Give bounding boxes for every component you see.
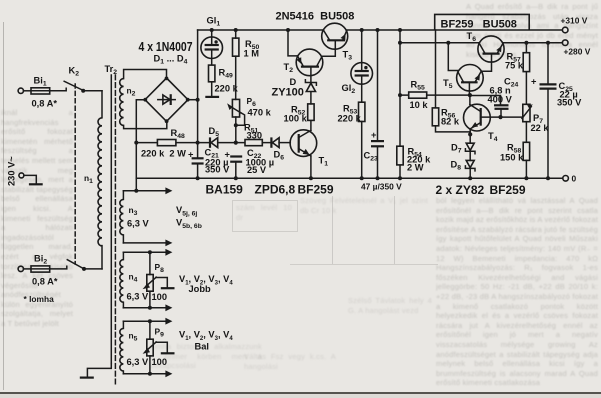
svg-text:BF259: BF259: [298, 183, 334, 197]
capacitor C23: [371, 30, 384, 178]
svg-text:P9: P9: [155, 327, 165, 339]
node B+ / R48 / D5: [196, 141, 200, 145]
node D5/C22/R51/P6: [234, 141, 238, 145]
fuse Bi1: [18, 88, 66, 94]
label C23: [364, 151, 378, 163]
label 400 V: [488, 95, 513, 105]
wire T4 collector: [469, 95, 471, 104]
svg-text:2 x ZY82: 2 x ZY82: [436, 183, 485, 197]
wire R52 to zener: [310, 92, 312, 104]
node +280 rail start: [398, 41, 402, 45]
label D6: [274, 150, 285, 162]
svg-text:1 M: 1 M: [244, 49, 260, 59]
label n4: [129, 272, 138, 284]
wire n2 top to bridge: [124, 70, 167, 79]
transistor T1 BF259: [290, 130, 317, 157]
svg-text:350 V: 350 V: [205, 165, 230, 175]
label 2 x ZY82: [436, 183, 485, 197]
node R50 top: [234, 28, 238, 32]
svg-text:ZY100: ZY100: [272, 87, 304, 99]
svg-text:10 k: 10 k: [410, 100, 429, 110]
svg-text:n1: n1: [84, 173, 93, 185]
resistor R49: [209, 65, 215, 82]
svg-text:0: 0: [572, 174, 577, 184]
node C23 top: [376, 28, 380, 32]
svg-text:+: +: [225, 150, 231, 160]
label 0,8 A* (bottom): [32, 277, 58, 287]
capacitor C22: [225, 150, 243, 179]
wire R51 line: [236, 142, 271, 144]
node C24/T4 base/P7: [498, 115, 502, 119]
svg-text:V5j, 6j: V5j, 6j: [176, 205, 197, 218]
label T5: [443, 78, 453, 90]
svg-text:6,3 V: 6,3 V: [127, 219, 150, 229]
label 220u (C21): [205, 158, 228, 168]
secondary winding n3: [120, 191, 124, 243]
wire P9 wiper to chassis: [156, 342, 175, 353]
wire P8 wiper to chassis: [156, 278, 175, 289]
label 2 W (R54): [407, 163, 424, 173]
wire raw B+ rail: [198, 29, 324, 31]
node R57 top: [524, 41, 528, 45]
secondary winding n2: [120, 79, 124, 126]
label 220 k 2 W: [141, 149, 186, 159]
label 2N5416 BU508: [276, 11, 355, 23]
heater output n5 bottom arrow: [123, 370, 172, 377]
wire +280 rail right: [503, 42, 562, 44]
label ZPD6,8: [255, 183, 296, 197]
secondary winding n4: [120, 252, 124, 307]
svg-text:K2: K2: [69, 66, 80, 78]
node n4 bottom: [148, 306, 152, 310]
BLEED_TEXT: [1, 108, 73, 396]
label 220 k (R49): [215, 84, 239, 94]
resistor R53: [359, 102, 365, 178]
label T6: [467, 31, 477, 43]
heater output n3 bottom arrow: [123, 240, 172, 247]
page left edge line: [3, 22, 4, 390]
svg-text:220 k: 220 k: [338, 114, 362, 124]
wire R56 branch: [436, 30, 470, 132]
svg-text:C23: C23: [364, 151, 378, 163]
svg-text:0,8 A*: 0,8 A*: [32, 99, 58, 109]
wire T1 collector to R52: [310, 120, 312, 130]
transistor T2 2N5416: [296, 49, 323, 76]
potentiometer P7: [522, 104, 533, 142]
svg-text:D: D: [290, 77, 297, 87]
svg-text:100 k: 100 k: [284, 114, 308, 124]
wire T5 collector branch: [448, 43, 458, 71]
potentiometer P8: [143, 252, 157, 307]
svg-text:Bi1: Bi1: [34, 76, 47, 88]
svg-text:V1, V2, V3, V4: V1, V2, V3, V4: [179, 330, 233, 343]
wire T5 emitter to T6 base: [481, 54, 491, 71]
wire R50 to P6: [235, 56, 237, 99]
page bottom rule: [0, 392, 601, 394]
transistor T5 BF259: [457, 65, 484, 96]
label 6,3 V (n4): [127, 292, 150, 302]
svg-text:220 k 2 W: 220 k 2 W: [141, 149, 186, 159]
capacitor C21: [188, 150, 204, 164]
label 470 k: [248, 108, 272, 118]
svg-text:2 W: 2 W: [407, 163, 424, 173]
label 220 k (R54): [407, 155, 431, 165]
svg-text:Tr2: Tr2: [105, 64, 118, 76]
svg-text:230 V~: 230 V~: [7, 156, 17, 186]
svg-text:T6: T6: [467, 31, 477, 43]
switch K2 pole 1: [64, 81, 102, 93]
node C22 bottom: [234, 176, 238, 180]
svg-text:BA159: BA159: [206, 183, 244, 197]
label R57: [507, 52, 521, 64]
label D5: [209, 126, 220, 138]
label V1,V2,V3,V4 (Jobb): [179, 274, 233, 287]
box label BF259 BU508: [435, 14, 530, 30]
label C24: [504, 77, 518, 89]
svg-text:47 µ/350 V: 47 µ/350 V: [361, 182, 402, 192]
svg-text:25 V: 25 V: [247, 165, 267, 175]
label P6: [247, 96, 257, 108]
wire T4 base to P7: [501, 116, 523, 118]
svg-text:4 x 1N4007: 4 x 1N4007: [139, 39, 193, 54]
resistor R48: [157, 140, 176, 146]
node bridge minus / R48: [134, 141, 138, 145]
label R52: [291, 105, 305, 117]
node T1 emitter 0V: [309, 176, 313, 180]
label 1 M: [244, 49, 260, 59]
label D1...D4: [154, 54, 188, 66]
label R53: [343, 104, 357, 116]
svg-text:D8: D8: [451, 160, 462, 172]
node n5 bottom: [148, 372, 152, 376]
node bridge plus: [196, 98, 200, 102]
svg-text:75 k: 75 k: [505, 61, 524, 71]
svg-text:n4: n4: [129, 272, 138, 284]
svg-text:T5: T5: [443, 78, 453, 90]
node C25 top: [546, 41, 550, 45]
label 22 k (P7): [531, 123, 550, 133]
label 150 k: [500, 153, 524, 163]
node n5 top / P9: [148, 319, 152, 323]
zener D ZY100: [305, 67, 316, 91]
diode D6: [271, 137, 290, 147]
svg-text:330: 330: [247, 131, 263, 141]
svg-text:2N5416 BU508: 2N5416 BU508: [276, 11, 355, 23]
label C22: [247, 148, 261, 160]
node R58 bottom 0V: [524, 176, 528, 180]
node R55 tap: [398, 93, 402, 97]
svg-text:T3: T3: [343, 50, 353, 62]
capacitor C25: [531, 43, 557, 179]
svg-text:D7: D7: [451, 143, 462, 155]
label P8: [155, 262, 165, 274]
label 6,8 n: [490, 86, 512, 96]
node n4 top / P8: [148, 250, 152, 254]
resistor R56: [432, 108, 438, 126]
transistor T3 BU508: [322, 23, 348, 49]
label V1,V2,V3,V4 (Bal): [179, 330, 233, 343]
label Jobb: [189, 284, 212, 294]
label 220 k (R53): [338, 114, 362, 124]
svg-text:+280 V: +280 V: [564, 47, 591, 57]
node n3 top: [134, 189, 138, 193]
node P6 wiper return: [234, 123, 238, 127]
label 4 x 1N4007: [139, 39, 193, 54]
terminal +310V: [561, 16, 588, 33]
svg-text:T1: T1: [319, 156, 329, 168]
svg-text:470 k: 470 k: [248, 108, 272, 118]
transistor T4 BF259: [464, 104, 501, 131]
fuse Bi2: [18, 266, 67, 272]
terminal +280V: [562, 40, 590, 57]
svg-text:Gl1: Gl1: [207, 16, 221, 28]
secondary winding n5: [120, 321, 124, 374]
label T3: [343, 50, 353, 62]
transformer core (solid): [110, 75, 112, 364]
label D (zener): [290, 77, 297, 87]
node T4 emitter / R56 / D7: [468, 132, 472, 136]
capacitor C24: [470, 96, 509, 118]
node Gl2 rail: [360, 28, 364, 32]
label R48: [171, 128, 185, 140]
node Gl1 top: [210, 28, 214, 32]
svg-text:+: +: [371, 130, 377, 140]
wire 0V rail: [136, 177, 562, 179]
label T4: [488, 131, 498, 143]
label Gl1: [207, 16, 221, 28]
svg-text:150 k: 150 k: [500, 153, 524, 163]
label R58: [507, 143, 521, 155]
wire +280 rail left: [400, 42, 479, 44]
label 0,8 A* (top): [32, 99, 58, 109]
label Tr2: [105, 64, 118, 76]
node D8 bottom 0V: [468, 176, 472, 180]
resistor R50: [233, 30, 239, 56]
transformer shield (dashed): [114, 75, 116, 384]
label 25 V: [247, 165, 267, 175]
label P9: [155, 327, 165, 339]
terminal 0: [563, 174, 577, 184]
diode D5: [210, 137, 218, 147]
node T5 collector branch: [446, 41, 450, 45]
label 350 V (C25): [557, 98, 582, 108]
heater output n5 top arrow: [123, 318, 172, 325]
svg-text:0,8 A*: 0,8 A*: [32, 277, 58, 287]
wire R55 line: [400, 94, 470, 96]
label BF259 (T1): [298, 183, 334, 197]
heater output n4 bottom arrow: [123, 304, 172, 311]
svg-text:Bal: Bal: [195, 342, 209, 352]
svg-text:R55: R55: [411, 80, 425, 92]
label BF259 (T4): [490, 183, 526, 197]
label 330: [247, 131, 263, 141]
svg-text:Jobb: Jobb: [189, 284, 212, 294]
label D7: [451, 143, 462, 155]
wire D5 line: [198, 142, 236, 144]
resistor R57: [523, 43, 529, 105]
label 100 (P8): [152, 292, 168, 302]
svg-text:BF259: BF259: [490, 183, 526, 197]
svg-text:BF259 BU508: BF259 BU508: [441, 19, 517, 31]
svg-text:100: 100: [152, 292, 168, 302]
label BA159: [206, 183, 244, 197]
svg-text:* lomha: * lomha: [24, 294, 55, 304]
svg-text:400 V: 400 V: [488, 95, 513, 105]
zener D8: [465, 160, 475, 178]
label Bi1: [34, 76, 47, 88]
wire n2 bottom to bridge: [124, 122, 167, 129]
heater output n4 top arrow: [123, 249, 172, 256]
svg-text:P6: P6: [247, 96, 257, 108]
label 6,3 V (n5): [127, 357, 150, 367]
faint box mid left: [232, 200, 298, 232]
wire T2 collector to T3 base: [322, 41, 335, 56]
label R51: [244, 123, 258, 135]
svg-text:ZPD6,8: ZPD6,8: [255, 183, 296, 197]
svg-text:n3: n3: [129, 205, 138, 217]
wire T2 emitter to raw rail: [288, 30, 298, 56]
label 22u (C25): [560, 90, 578, 100]
svg-text:D6: D6: [274, 150, 285, 162]
label T1: [319, 156, 329, 168]
svg-text:P8: P8: [155, 262, 165, 274]
label K2: [69, 66, 80, 78]
svg-text:6,3 V: 6,3 V: [127, 292, 150, 302]
resistor R54: [397, 146, 403, 165]
switch K2 linkage (dashed): [74, 84, 76, 264]
wire R48 line: [136, 142, 197, 144]
svg-text:22 k: 22 k: [531, 123, 550, 133]
svg-text:n2: n2: [127, 86, 136, 98]
wire primary return: [101, 246, 103, 269]
glow lamp Gl1: [201, 30, 223, 65]
node C21 bottom: [196, 176, 200, 180]
faint table lines mid bottom: [332, 196, 333, 264]
wire bridge + output to rail: [188, 99, 198, 101]
svg-text:D1 ... D4: D1 ... D4: [154, 54, 188, 66]
label ZY100: [272, 87, 304, 99]
resistor R51: [245, 140, 262, 146]
label n2: [127, 86, 136, 98]
chassis bar R49: [205, 82, 219, 97]
label C25: [559, 81, 573, 93]
svg-text:V5b, 6b: V5b, 6b: [176, 218, 202, 231]
wire T4 emitter to D7: [469, 129, 471, 142]
label 230 V~: [7, 156, 17, 186]
node R54 bottom 0V: [398, 176, 402, 180]
wire T1 emitter to 0V: [310, 156, 312, 178]
bridge rectifier D1-D4: [143, 77, 189, 124]
label V5b,6b: [176, 218, 202, 231]
svg-text:+310 V: +310 V: [561, 16, 588, 26]
label 82 k: [441, 117, 460, 127]
label n5: [129, 331, 138, 343]
svg-text:Bi2: Bi2: [34, 254, 47, 266]
label * lomha: [24, 294, 55, 304]
primary winding n1: [98, 118, 102, 246]
transformer shield earth: [80, 364, 112, 378]
label 1000u: [246, 158, 275, 168]
label 75 k: [505, 61, 524, 71]
node C23 bottom: [376, 176, 380, 180]
label 100 k: [284, 114, 308, 124]
label R54: [408, 147, 422, 159]
transistor T6 BU508: [478, 36, 504, 62]
node T5 base / T4 collector: [468, 93, 472, 97]
resistor R52: [308, 104, 314, 121]
label R55: [411, 80, 425, 92]
label T2: [284, 62, 294, 74]
wire bridge - output down: [136, 100, 145, 179]
label 350 V (C21): [205, 165, 230, 175]
svg-text:T2: T2: [284, 62, 294, 74]
label Bi2: [34, 254, 47, 266]
label R50: [245, 39, 259, 51]
label D8: [451, 160, 462, 172]
svg-text:+: +: [188, 150, 194, 160]
svg-text:350 V: 350 V: [557, 98, 582, 108]
potentiometer P9: [143, 321, 157, 374]
svg-text:+: +: [531, 77, 537, 87]
svg-text:R49: R49: [219, 68, 233, 80]
label 100 (P9): [152, 357, 168, 367]
label 10 k: [410, 100, 429, 110]
wire +310 feed vertical: [399, 30, 401, 178]
label R49: [219, 68, 233, 80]
label n3: [129, 205, 138, 217]
svg-text:T4: T4: [488, 131, 498, 143]
label 47u/350 V: [361, 182, 402, 192]
label R56: [441, 108, 455, 120]
wire B+ vertical: [197, 30, 199, 178]
node T2 emitter rail: [286, 28, 290, 32]
svg-text:Gl2: Gl2: [342, 83, 356, 95]
potentiometer P6: [227, 99, 245, 142]
resistor R58: [523, 142, 529, 178]
node +310 feed top: [398, 28, 402, 32]
label Bal: [195, 342, 209, 352]
label V5j,6j: [176, 205, 197, 218]
switch K2 pole 2: [67, 260, 102, 271]
label 6,3 V (n3): [127, 219, 150, 229]
svg-text:100: 100: [152, 357, 168, 367]
label n1: [84, 173, 93, 185]
resistor R55: [409, 92, 427, 98]
label Gl2: [342, 83, 356, 95]
glow lamp Gl2: [351, 30, 373, 102]
heater output n3 top arrow: [123, 187, 172, 194]
zener D7: [465, 143, 475, 160]
svg-text:n5: n5: [129, 331, 138, 343]
svg-text:R48: R48: [171, 128, 185, 140]
wire +310V rail: [346, 29, 562, 31]
svg-text:D5: D5: [209, 126, 220, 138]
svg-text:82 k: 82 k: [441, 117, 460, 127]
wire 0-rail to heater n3: [135, 178, 137, 191]
wire K2 to primary n1: [101, 91, 103, 118]
svg-text:6,3 V: 6,3 V: [127, 357, 150, 367]
label C21: [205, 148, 219, 160]
label P7: [533, 113, 543, 125]
mains terminal 230V with earth bar: [19, 173, 43, 184]
node C25 bottom: [546, 176, 550, 180]
node R53 bottom: [360, 176, 364, 180]
